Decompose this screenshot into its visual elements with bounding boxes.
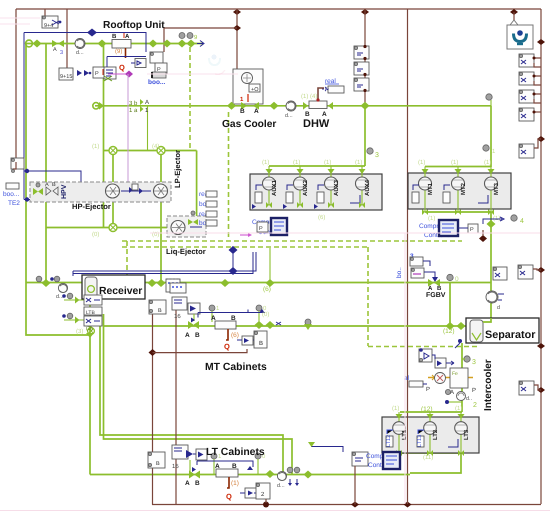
sensor box TL1 [42,16,58,29]
svg-text:3: 3 [472,359,476,366]
svg-text:AUX1: AUX1 [271,179,278,196]
compressor MT1 [412,167,434,213]
wire green MT header [425,166,491,168]
icon navy arrows row2 [77,70,91,76]
label mt ports [418,159,500,222]
label fgbv blue rotated [396,253,414,278]
wire left border drop [15,9,17,162]
node green y283 x161 [157,279,166,287]
receiver box [82,275,145,299]
sensor dots mt cab [209,305,267,322]
wire logo stub [513,12,515,20]
svg-text:Q: Q [224,342,230,351]
node green y283 x225 [221,279,230,287]
svg-text:(1): (1) [484,159,491,166]
svg-text:B: B [52,182,56,188]
wire green fgbv branch x450 [449,283,451,326]
svg-text:(1): (1) [392,405,399,412]
pump mt suction [486,291,504,311]
controller AUX p box [257,222,268,232]
icon green scissors [104,76,112,81]
pump recv line [56,283,68,300]
svg-text:A: A [185,332,190,339]
valve circle x161 top [157,147,165,155]
sensor dot y326 line [304,319,312,330]
svg-text:(1): (1) [428,215,435,222]
svg-text:B: B [232,463,237,470]
sensor dots lt cab [211,453,266,474]
svg-text:d...: d... [76,50,84,56]
wire green x94 pair a [100,311,283,475]
HP ejector dashed box [30,182,171,202]
wire vertical x45 [44,9,46,17]
receiver vessel [85,277,97,298]
gas cooler valve ports [240,102,259,115]
intercooler pump [435,373,446,384]
wire red Q elbow rooftop [119,48,126,72]
label lt ports [392,405,462,461]
wire green dashed x368 [367,247,369,346]
logo glyph [514,30,527,44]
receiver outlet dots b [62,313,79,323]
wire LP loop top [104,150,197,152]
svg-text:A: A [53,47,57,53]
svg-text:2: 2 [473,402,477,409]
valve FGBV [428,279,442,292]
valve hp left [33,183,43,195]
label LT Cabinets [206,447,265,458]
svg-text:Fe: Fe [452,371,458,377]
node border right y270 [537,267,545,273]
wire green dashed y241 [122,240,462,242]
label Liq-Ejector [166,247,206,256]
svg-text:16: 16 [172,463,179,470]
svg-text:d..: d.. [466,396,473,402]
pi box mt [254,331,267,348]
wire green MT footer [425,211,491,213]
wire green main rooftop y43 [26,43,203,45]
svg-text:HP-Ejector: HP-Ejector [72,202,111,211]
svg-text:LT3: LT3 [463,429,470,440]
box +15 [59,68,73,80]
svg-text:4: 4 [520,218,524,225]
svg-text:Q: Q [119,63,125,72]
svg-text:(12): (12) [421,406,433,413]
valve circle x113 top [109,147,117,155]
svg-text:A: A [185,480,190,487]
controller AUX box [271,218,287,235]
MT rack box [408,173,511,209]
wire left component drop [14,161,16,163]
connector gc line left end [93,102,104,110]
superheat box lt [148,452,165,468]
compressor AUX4 [350,166,371,205]
sensor dot ic 3 [462,356,476,366]
sensor box row2b [104,67,116,79]
pump lt line [266,470,287,489]
wire green MT suction drop [490,212,492,318]
pink overlay v405 [405,233,408,504]
svg-text:P: P [426,386,430,393]
node green x37 [33,40,42,48]
svg-text:(9): (9) [115,48,122,55]
svg-text:(3): (3) [86,326,93,332]
wire green dashed v x190 [189,47,191,150]
svg-text:LT13: LT13 [417,435,423,447]
node green x365 main [361,102,370,110]
wire magenta x128 drop [127,74,129,183]
gain block rooftop [131,59,146,68]
controller LT box [383,452,400,469]
wire green x101 pair b [104,314,293,475]
label (12) lt [421,406,433,413]
controller MT text [419,223,455,239]
label 16 [86,326,93,332]
wire LP loop bottom [46,227,197,229]
label Receiver [99,286,142,297]
node border right y390 [537,387,545,393]
wire LP loop mid [112,151,114,228]
node navy sep [455,339,462,348]
lookup table box [166,279,180,292]
svg-text:B: B [195,480,200,487]
node green y283 x46 [42,279,51,287]
intercooler hx [428,375,473,380]
wire navy fgbv arrow [424,272,438,282]
svg-text:3: 3 [375,152,379,159]
svg-text:A: A [211,315,216,322]
svg-text:B: B [437,285,442,292]
wire green y326 long [104,325,451,327]
svg-text:(12): (12) [443,328,455,335]
svg-text:A: A [145,99,149,106]
ghost watermark [209,55,225,75]
wire red Q lt [226,477,232,501]
label real dhw [325,78,339,85]
svg-text:16: 16 [174,313,181,320]
node navy diamond recv [229,267,238,275]
wire green dashed y346 [368,346,477,348]
wire magenta aux stub [240,233,252,237]
svg-text:(11): (11) [423,454,433,461]
svg-text:AUX3: AUX3 [333,179,340,196]
svg-text:Q: Q [226,492,232,501]
svg-text:A: A [215,463,220,470]
svg-text:(6): (6) [231,332,239,339]
node green x102 [98,40,107,48]
wire brown x176 [175,310,177,505]
svg-text:LP-Ejector: LP-Ejector [173,150,182,188]
svg-text:A: A [428,285,433,292]
node green x182 [178,40,187,48]
valve arrows x57 [52,40,64,56]
sensor dot x182 [179,33,185,39]
wire green x103 recv elbow [76,328,94,338]
label (12) sep [443,328,455,335]
wire green sep inlet elbow [483,318,491,322]
svg-text:(0): (0) [152,231,159,238]
svg-text:Gas Cooler: Gas Cooler [222,119,276,130]
sensor box R6 [518,265,541,279]
wire rooftop elbow y28 [164,28,237,52]
node top1 [233,9,241,15]
icon scissors TL [52,20,61,25]
superheat box mt [149,300,166,314]
svg-text:boo...: boo... [3,191,19,198]
ejector venturi 1 [106,184,120,198]
controller MT pt box [458,219,501,233]
svg-text:Separator: Separator [485,329,536,341]
label Separator [485,329,536,341]
label Gas Cooler [222,119,276,130]
svg-text:LTB: LTB [86,310,95,316]
node green lt x308 [304,471,313,479]
gas cooler red mark [240,94,248,103]
svg-text:(1): (1) [262,159,269,166]
svg-text:A: A [322,111,327,118]
svg-text:0: 0 [455,276,459,283]
svg-text:d...: d... [285,113,293,119]
connector lt footer glyphs [396,450,464,456]
svg-text:AUX2: AUX2 [302,179,309,196]
wire brown x355 [354,466,356,505]
svg-text:(1): (1) [455,405,462,412]
sensor dot 4 [487,215,525,228]
wire green lt drop [189,460,191,475]
valve mt cab [185,318,200,340]
wire green x143 stub [147,106,149,151]
node magenta diamond [125,71,133,78]
wire brown q branch mt [153,349,248,353]
label (1)(4) dhw [301,93,317,100]
wire vertical x407 [407,9,409,504]
liq ejector dashed box [167,216,206,237]
svg-text:(1): (1) [355,159,362,166]
controller AUX text [252,219,288,236]
svg-text:(1): (1) [324,159,331,166]
valve liq glyphs [188,211,202,227]
svg-text:P: P [95,71,99,77]
label (9) orange [115,48,122,55]
svg-text:B: B [240,108,245,115]
fgbv box b [411,268,424,278]
svg-text:(4): (4) [152,143,159,150]
wire navy receiver pair [73,252,256,276]
node right y42 [537,39,545,45]
svg-text:B: B [195,332,200,339]
label HPV rotated [61,184,68,199]
wire green gc line y105.5 [95,105,491,107]
wire right border [540,9,542,504]
receiver valve block2 [84,307,102,316]
node navy diamond x92 [87,29,97,37]
svg-text:1 a: 1 a [129,107,138,114]
svg-text:LT12: LT12 [386,435,392,447]
gain box lt [240,488,259,498]
svg-text:Receiver: Receiver [99,286,142,297]
label aux footer [262,159,362,221]
svg-text:P: P [470,227,474,233]
svg-text:bo..: bo.. [396,267,403,278]
wire navy mt cab top [198,309,265,318]
sensor dots lt line [287,467,300,486]
valve circle x113 bottom [109,224,117,232]
svg-text:(4): (4) [310,93,317,100]
wire green LT manifold [410,453,461,473]
svg-text:(1): (1) [418,159,425,166]
node green x191 [187,40,196,48]
fgbv box a [410,257,430,266]
wire navy liq drop [229,246,238,271]
label 2 green ic [445,389,477,409]
wire green receiver bus y283 [26,282,491,284]
svg-text:P: P [259,226,263,232]
svg-text:9+4: 9+4 [44,23,53,29]
svg-text:HPV: HPV [61,184,68,199]
sensor dot fgbv [447,274,459,283]
label al box ic [404,375,430,393]
wire green LT header y412 [400,411,462,413]
label stack boo2 [199,201,217,208]
node top3 [510,9,518,15]
wire liq ejector drop [177,228,179,238]
LT rack box [382,417,479,453]
svg-text:+O: +O [251,87,259,93]
separator box [466,318,539,343]
wire green x104 down [103,44,105,151]
gas cooler fan [242,73,253,84]
wire green receiver outlet2 y320 [64,319,86,321]
wire brown x152 [152,314,154,505]
wire green AUX header [269,165,365,167]
svg-text:B: B [158,308,162,314]
sh controller box ic [419,348,432,362]
icon navy between ejectors [121,184,151,194]
pump dhw line [285,101,296,119]
svg-text:B: B [231,315,236,322]
wire green dashed y247 [122,246,368,248]
label Rooftop Unit [103,20,165,31]
wire navy rect top [24,33,146,53]
sensor box mid x496 [493,267,507,280]
wire green LT main y474 [90,474,410,476]
svg-text:AUX4: AUX4 [364,179,371,196]
svg-text:(0): (0) [262,311,269,318]
controller LT text [366,453,393,469]
node green y283 x152 [148,279,157,287]
svg-text:A: A [125,33,130,40]
node top2 [361,9,369,15]
svg-text:(6): (6) [263,286,271,293]
sensor dots recv line [36,276,60,282]
ctrl box lt2 [172,445,188,470]
svg-text:d...: d... [277,483,285,489]
sensor circle ic [457,392,473,403]
svg-text:(1): (1) [301,93,308,100]
sensor box chain x360 b [354,62,369,76]
sensor dot x190 [187,33,198,42]
ejector venturi liq [171,221,185,235]
compressor AUX3 [314,166,340,209]
wire green AUX footer [269,204,362,206]
wire vertical x237 to gas cooler [233,9,241,69]
sensor box R7 [519,381,541,395]
sensor box R5 [519,139,541,158]
svg-text:(3): (3) [76,328,83,335]
sensor dot aux riser [367,148,379,159]
wire navy lt cab top [197,461,253,470]
wire green receiver outlet1 y300 [64,299,86,301]
node border right y139 [537,136,545,142]
gas cooler inner box [249,84,260,93]
compressor LT1 [386,412,408,453]
wire LP loop right mid [160,151,162,284]
connector green left end [26,40,33,47]
receiver valve block [84,295,102,305]
wire vertical x67 [66,9,68,68]
compressor LT2 [417,412,439,453]
label stack rea3 [199,211,217,218]
wire green AUX riser [364,106,366,166]
svg-text:Liq-Ejector: Liq-Ejector [166,247,206,256]
label boo TE2 [3,183,20,207]
compressor MT3 [478,167,500,213]
wire navy left drop x24 [23,33,25,200]
ctrl box mt2 [172,297,187,320]
label boo rooftop [148,72,166,86]
dhw hx [303,101,333,118]
wire bottom bus [152,504,541,506]
connector aux footer glyphs [266,202,365,208]
label MT Cabinets [205,362,267,373]
wire green separator outlet [461,343,463,412]
wire navy y199 [24,197,150,201]
svg-text:MT Cabinets: MT Cabinets [205,362,267,373]
wire green x90 down [89,302,91,475]
node green x153 [149,40,158,48]
wire LP loop right [196,151,198,228]
ejector venturi 2 [154,184,168,198]
wire green LT rack bottom [399,452,461,454]
wire green ic stub [445,400,462,404]
valve lt cab [185,467,200,487]
wire green dashed x127 [126,241,128,280]
controller MT box [439,220,458,236]
wire green separator feed y326 [450,325,466,327]
svg-text:3: 3 [60,50,63,56]
controller box row2 [93,67,106,78]
hx rooftop evap [112,33,131,48]
svg-text:B: B [112,33,117,40]
wire dhw brown elbow [316,88,324,102]
svg-text:MT3: MT3 [493,182,500,195]
receiver valve block3 [84,316,102,326]
valve pilot mt [188,303,200,321]
node green gc left [227,102,236,110]
label FGBV [426,292,446,299]
svg-text:LT2: LT2 [432,429,439,440]
wire navy lt right [308,442,343,452]
evaporator mt cab [211,315,236,329]
sensor box x150 [150,52,163,63]
svg-text:FGBV: FGBV [426,292,446,299]
wire navy row2 [107,57,146,68]
connector mt footer glyphs [422,209,494,215]
sensor box R3 [519,90,541,103]
label port marks LP [92,143,159,238]
sensor box lt mid [352,452,368,466]
gain box mt [237,336,256,345]
